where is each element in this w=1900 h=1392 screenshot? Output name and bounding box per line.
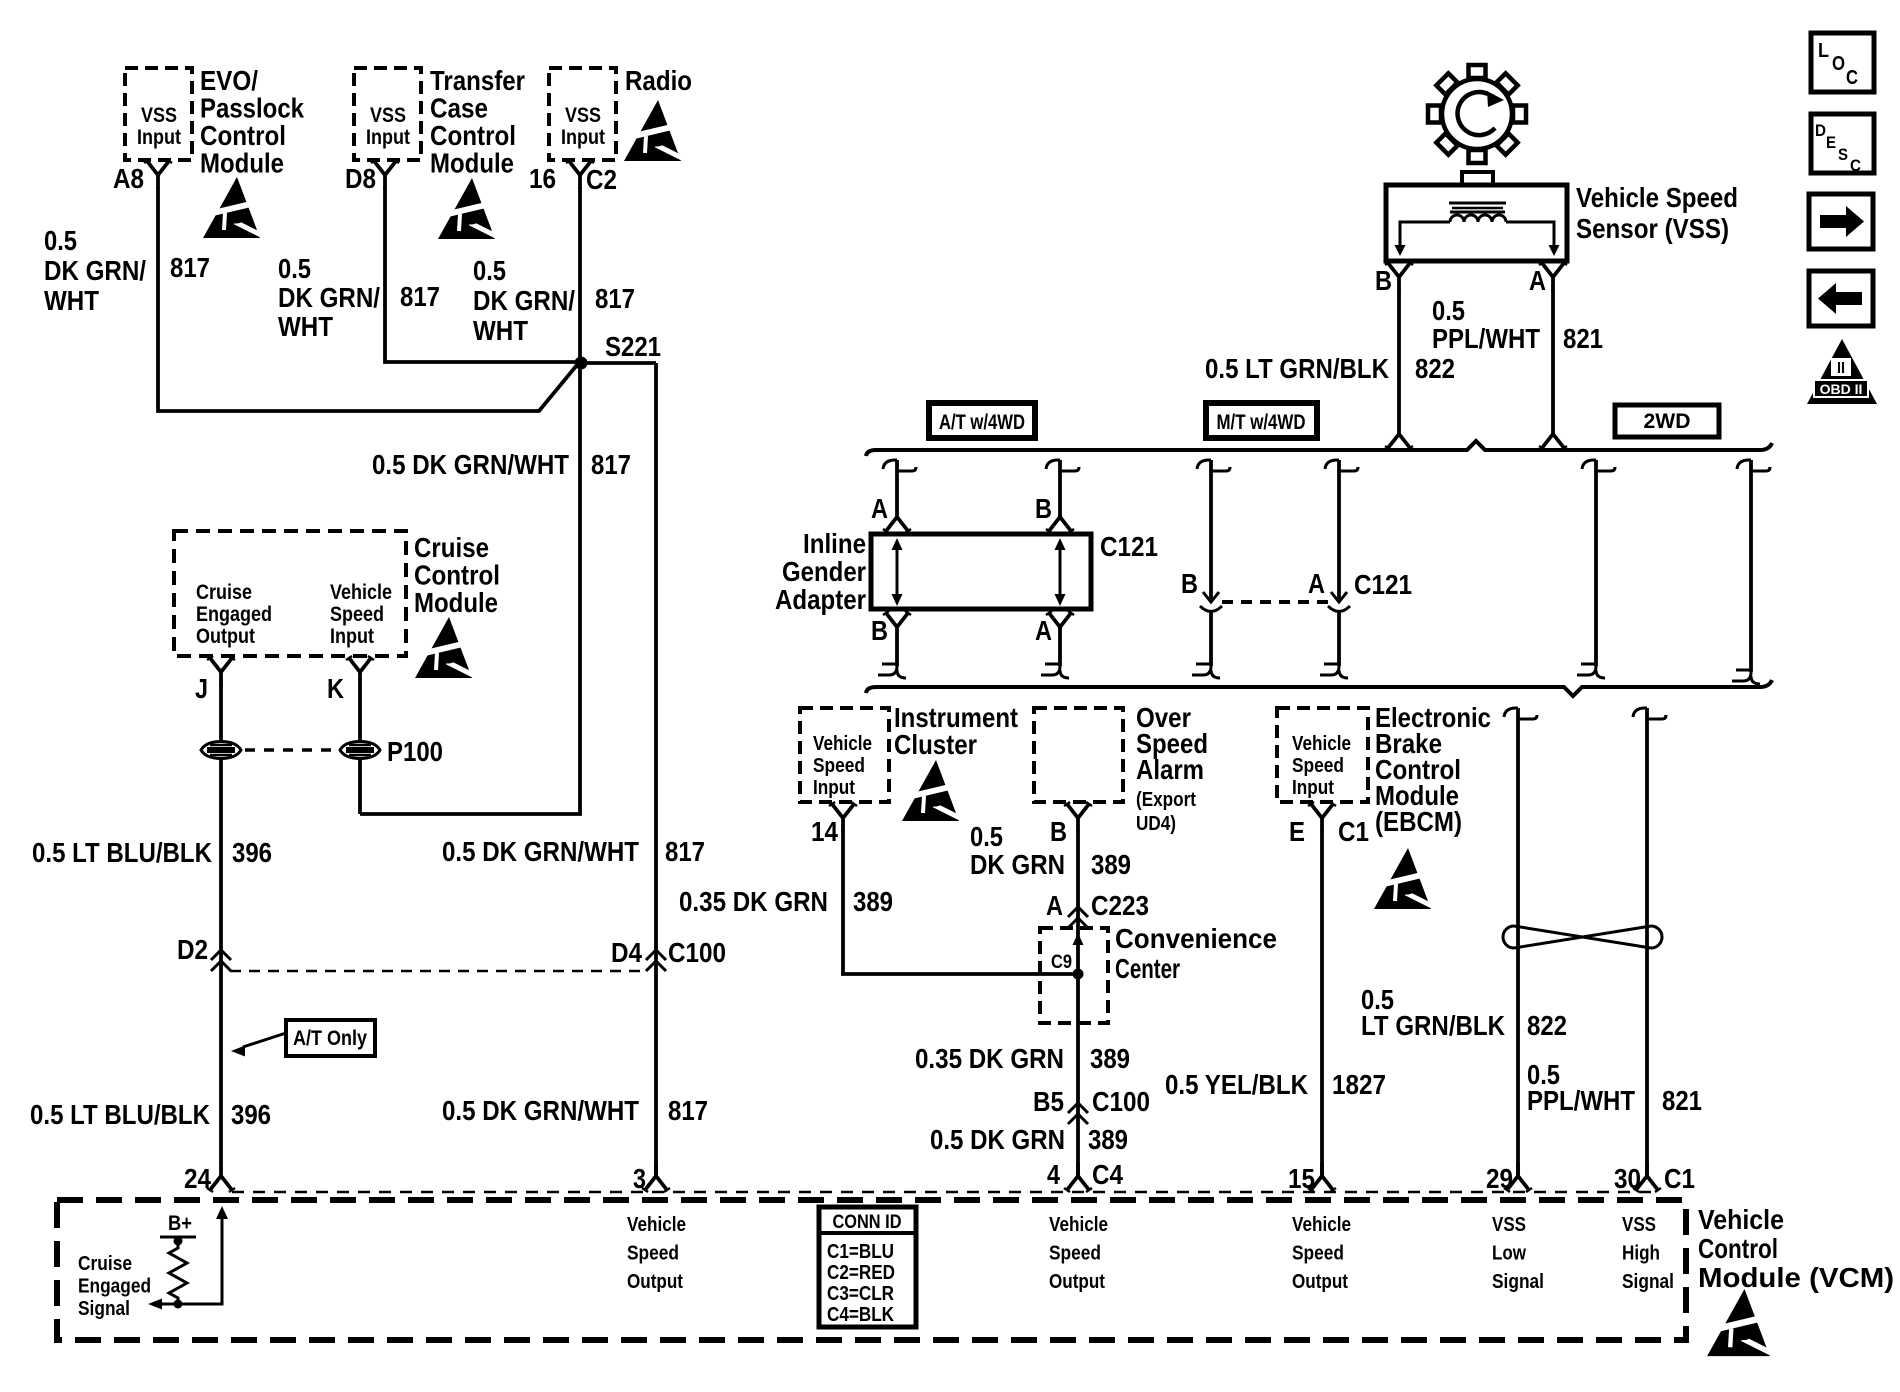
wire 817 from EVO pin A8 to splice S221 [158,187,577,411]
svg-text:OBD II: OBD II [1820,381,1863,397]
wire 389 from pin B down to VCM pin 4 [1076,830,1080,1176]
svg-text:821: 821 [1563,323,1603,354]
ESD-sensitive symbol (Radio) [624,100,686,161]
svg-text:Radio: Radio [625,65,692,96]
A/T stub wire A (right) from gender adapter to lower bracket [1049,613,1071,627]
svg-text:VSS: VSS [1492,1214,1526,1236]
svg-text:Center: Center [1115,953,1180,984]
module Cruise Control Module (dashed box) [174,531,406,656]
wire 821 VSS high signal from lower bracket to VCM pin 30 [1633,708,1647,717]
svg-text:0.5: 0.5 [473,255,506,286]
module Over Speed Alarm (dashed box) [1034,708,1123,802]
svg-text:14: 14 [811,816,838,847]
svg-text:Speed: Speed [330,603,384,626]
svg-text:Cruise: Cruise [414,532,489,563]
sidebar icon OBD II triangle [1807,339,1877,404]
svg-text:C100: C100 [668,937,726,968]
upper harness bracket [866,441,1772,456]
svg-text:S: S [1838,145,1848,164]
svg-text:L: L [1818,40,1829,62]
svg-text:A: A [1035,615,1052,646]
svg-text:396: 396 [232,837,272,868]
svg-text:VSS: VSS [370,104,406,127]
svg-text:VSS: VSS [141,104,177,127]
svg-text:WHT: WHT [278,311,333,342]
svg-text:Control: Control [1698,1233,1778,1264]
svg-text:Adapter: Adapter [775,584,866,615]
module EVO/Passlock Control Module (VSS Input box) [125,68,192,160]
svg-text:K: K [327,673,344,704]
VCM connector face (thin dashed line) [232,1191,1656,1194]
module Instrument Cluster (dashed box, Vehicle Speed Input) [800,708,889,802]
pass-through grommet P100 (K wire) [340,742,380,759]
svg-text:Signal: Signal [1622,1271,1674,1293]
svg-text:389: 389 [1091,849,1131,880]
svg-text:Control: Control [200,120,286,151]
VSS internal wires to terminals [1400,222,1450,246]
svg-text:C121: C121 [1100,531,1158,562]
svg-text:D2: D2 [177,934,208,965]
svg-text:Sensor (VSS): Sensor (VSS) [1576,213,1729,244]
svg-text:0.5 DK GRN: 0.5 DK GRN [930,1124,1065,1155]
variant label box 2WD [1615,405,1719,437]
svg-text:II: II [1837,360,1845,377]
svg-text:M/T w/4WD: M/T w/4WD [1217,411,1306,434]
svg-text:(EBCM): (EBCM) [1375,806,1462,837]
sidebar icon forward arrow [1809,194,1873,249]
svg-text:821: 821 [1662,1085,1702,1116]
svg-text:Cruise: Cruise [196,581,252,604]
svg-text:C2=RED: C2=RED [827,1262,895,1284]
svg-text:(Export: (Export [1136,789,1196,811]
dashed link between P100 grommets [245,748,336,752]
svg-text:J: J [195,673,208,704]
wire 817 from pin K down through P100 to S221 branch [358,684,362,814]
svg-text:Vehicle: Vehicle [627,1214,686,1236]
svg-text:0.5: 0.5 [44,225,77,256]
svg-text:C: C [1850,156,1861,175]
svg-text:B5: B5 [1033,1086,1064,1117]
wire 822 from VSS pin B to harness bracket [1397,289,1401,434]
svg-text:Vehicle: Vehicle [1292,1214,1351,1236]
svg-text:Vehicle: Vehicle [813,733,872,755]
wire 817 from S221 right and down to VCM pin 3 [581,363,656,1176]
svg-text:C2: C2 [586,164,617,195]
svg-text:Input: Input [561,126,605,149]
svg-text:817: 817 [591,449,631,480]
variant label box M/T w/4WD [1206,403,1317,438]
ESD-sensitive symbol (VCM) [1707,1289,1775,1356]
svg-text:Engaged: Engaged [78,1276,151,1298]
svg-text:Module: Module [414,587,498,618]
gender adapter internal pass-through (left) [896,546,899,598]
wire 822 VSS low signal from lower bracket to VCM pin 29 [1504,708,1518,717]
svg-text:C4=BLK: C4=BLK [827,1304,894,1326]
svg-text:389: 389 [1088,1124,1128,1155]
svg-text:0.5: 0.5 [278,253,311,284]
gender adapter internal pass-through (right) [1059,546,1062,598]
svg-text:D8: D8 [345,163,376,194]
svg-text:Passlock: Passlock [200,93,304,124]
svg-text:C3=CLR: C3=CLR [827,1283,894,1305]
svg-text:817: 817 [400,281,440,312]
ESD-sensitive symbol (EBCM) [1374,848,1436,909]
svg-text:B: B [1181,568,1198,599]
svg-text:C1: C1 [1664,1163,1695,1194]
svg-text:0.5 DK GRN/WHT: 0.5 DK GRN/WHT [442,836,639,867]
Vehicle Speed Sensor (VSS) body [1462,172,1493,185]
wire 1827 from EBCM pin E down to VCM pin 15 [1320,830,1324,1176]
VSS core laminations [1449,202,1506,205]
svg-text:Control: Control [430,120,516,151]
svg-text:Gender: Gender [782,556,866,587]
dashed connector line C121 (M/T) [1222,600,1328,604]
svg-text:Output: Output [196,625,255,648]
svg-text:S221: S221 [605,331,661,362]
svg-text:A8: A8 [113,163,144,194]
svg-text:Cluster: Cluster [894,729,977,760]
svg-text:0.5 DK GRN/WHT: 0.5 DK GRN/WHT [442,1095,639,1126]
svg-text:DK GRN/: DK GRN/ [473,285,575,316]
variant label box A/T w/4WD [929,403,1035,438]
dashed connector line C100 between D2 and D4 [230,970,648,973]
module Vehicle Control Module VCM (heavy dashed box) [57,1200,1686,1340]
svg-text:A: A [1529,265,1546,296]
svg-text:Vehicle: Vehicle [1049,1214,1108,1236]
svg-text:817: 817 [595,283,635,314]
twisted pair symbol on wires 822/821 [1503,926,1514,948]
svg-text:Vehicle: Vehicle [1698,1204,1784,1235]
svg-text:Case: Case [430,93,488,124]
svg-text:Module: Module [430,148,514,179]
svg-text:DK GRN/: DK GRN/ [278,282,380,313]
svg-text:High: High [1622,1243,1660,1265]
svg-text:Control: Control [414,560,500,591]
svg-text:Low: Low [1492,1243,1526,1265]
svg-text:Input: Input [1292,777,1334,799]
svg-text:A: A [1046,890,1063,921]
reluctor gear symbol of Vehicle Speed Sensor [1428,65,1526,163]
svg-text:A: A [1308,568,1325,599]
svg-text:Input: Input [330,625,374,648]
svg-text:Input: Input [813,777,855,799]
svg-text:C1: C1 [1338,816,1369,847]
VSS pickup coil [1450,215,1506,222]
svg-text:A/T Only: A/T Only [293,1027,367,1050]
svg-text:B: B [1050,816,1067,847]
svg-text:C: C [1846,67,1858,89]
svg-text:Output: Output [1049,1271,1105,1293]
svg-text:VSS: VSS [1622,1214,1656,1236]
svg-text:822: 822 [1527,1010,1567,1041]
svg-text:B: B [1375,265,1392,296]
svg-text:Vehicle Speed: Vehicle Speed [1576,182,1738,213]
svg-text:WHT: WHT [44,285,99,316]
callout box A/T Only with arrow to wire 396 [286,1020,375,1056]
svg-text:O: O [1832,53,1845,75]
svg-text:Signal: Signal [78,1298,130,1320]
sidebar icon LOC [1811,33,1874,92]
svg-text:389: 389 [1090,1043,1130,1074]
svg-text:CONN ID: CONN ID [833,1212,902,1233]
svg-text:817: 817 [170,252,210,283]
2WD stub wire (left) [1582,460,1596,469]
svg-text:0.35 DK GRN: 0.35 DK GRN [915,1043,1064,1074]
svg-text:389: 389 [853,886,893,917]
svg-text:C9: C9 [1051,952,1072,973]
svg-text:Cruise: Cruise [78,1253,132,1275]
svg-text:Transfer: Transfer [430,65,525,96]
svg-text:Speed: Speed [1049,1243,1101,1265]
svg-text:Speed: Speed [813,755,865,777]
svg-text:Convenience: Convenience [1115,923,1277,954]
svg-text:UD4): UD4) [1136,813,1176,835]
A/T stub wire A (left) from bracket to gender adapter [883,460,897,469]
svg-text:DK GRN/: DK GRN/ [44,255,146,286]
svg-text:0.5 YEL/BLK: 0.5 YEL/BLK [1165,1069,1308,1100]
svg-text:Input: Input [366,126,410,149]
splice S221 [575,357,588,370]
module Convenience Center (dashed box) with C9 junction [1040,928,1108,1023]
svg-text:B: B [1035,493,1052,524]
svg-text:0.5 DK GRN/WHT: 0.5 DK GRN/WHT [372,449,569,480]
svg-text:A: A [871,493,888,524]
svg-text:Output: Output [1292,1271,1348,1293]
module Transfer Case Control Module (VSS Input box) [354,68,421,160]
A/T stub wire B (left) from gender adapter to lower bracket [886,613,908,627]
ESD-sensitive symbol (EVO module) [203,177,265,238]
svg-text:Module (VCM): Module (VCM) [1698,1262,1894,1293]
svg-text:Engaged: Engaged [196,603,272,626]
svg-text:E: E [1826,133,1836,152]
svg-text:PPL/WHT: PPL/WHT [1432,323,1540,354]
ESD-sensitive symbol (Cruise Control module) [415,617,477,678]
pass-through grommet P100 (J wire) [201,742,241,759]
M/T stub wire B (left) with connector C121 [1197,460,1211,469]
svg-text:817: 817 [668,1095,708,1126]
svg-text:C1=BLU: C1=BLU [827,1241,894,1263]
svg-text:0.5: 0.5 [970,821,1003,852]
wire 817 from Radio pin 16 down through splice S221 [360,187,580,814]
svg-text:C121: C121 [1354,569,1412,600]
ESD-sensitive symbol (Transfer Case module) [438,178,500,239]
svg-text:Vehicle: Vehicle [1292,733,1351,755]
svg-text:E: E [1289,816,1305,847]
svg-text:WHT: WHT [473,315,528,346]
svg-text:4: 4 [1047,1159,1060,1190]
svg-text:B+: B+ [168,1212,192,1235]
svg-text:B: B [871,615,888,646]
svg-text:0.5 LT BLU/BLK: 0.5 LT BLU/BLK [30,1099,210,1130]
svg-text:Output: Output [627,1271,683,1293]
svg-text:Speed: Speed [1292,755,1344,777]
svg-text:PPL/WHT: PPL/WHT [1527,1085,1635,1116]
wire 821 from VSS pin A to harness bracket [1551,289,1555,434]
sidebar icon DESC [1811,114,1874,173]
wire 817 from Transfer Case pin D8 to splice S221 [385,187,575,362]
svg-text:Alarm: Alarm [1136,754,1204,785]
svg-text:LT GRN/BLK: LT GRN/BLK [1361,1010,1505,1041]
svg-text:Inline: Inline [803,528,866,559]
svg-text:C223: C223 [1091,890,1149,921]
svg-text:VSS: VSS [565,104,601,127]
A/T stub wire B (right) from bracket to gender adapter [1046,460,1060,469]
svg-text:Signal: Signal [1492,1271,1544,1293]
svg-text:0.5 LT GRN/BLK: 0.5 LT GRN/BLK [1205,353,1389,384]
module Radio (VSS Input box) [549,68,616,160]
ESD-sensitive symbol (Instrument Cluster) [902,760,964,821]
svg-text:EVO/: EVO/ [200,65,258,96]
M/T stub wire A (right) with connector C121 [1325,460,1339,469]
svg-text:817: 817 [665,836,705,867]
svg-text:0.5: 0.5 [1432,295,1465,326]
svg-text:C4: C4 [1092,1159,1123,1190]
svg-text:Module: Module [200,148,284,179]
svg-text:822: 822 [1415,353,1455,384]
svg-text:396: 396 [231,1099,271,1130]
svg-text:1827: 1827 [1332,1069,1386,1100]
Inline Gender Adapter box C121 [871,534,1091,609]
lower harness bracket [866,680,1772,696]
svg-text:0.35 DK GRN: 0.35 DK GRN [679,886,828,917]
wire 396 from pin J down to VCM pin 24 [219,684,223,1163]
module Electronic Brake Control Module EBCM (dashed box, Vehicle Speed Input) [1277,708,1368,802]
svg-text:Speed: Speed [627,1243,679,1265]
svg-text:C100: C100 [1092,1086,1150,1117]
2WD stub wire (right) [1737,460,1751,469]
svg-text:Vehicle: Vehicle [330,581,392,604]
svg-text:D4: D4 [611,937,642,968]
svg-text:P100: P100 [387,736,443,767]
CONN ID legend table [819,1207,916,1327]
svg-text:Input: Input [137,126,181,149]
svg-text:2WD: 2WD [1644,410,1691,433]
svg-text:DK GRN: DK GRN [970,849,1065,880]
svg-text:0.5 LT BLU/BLK: 0.5 LT BLU/BLK [32,837,212,868]
svg-text:D: D [1815,121,1826,140]
wire 389 from pin 14 to convenience center junction [843,830,1074,974]
svg-text:16: 16 [529,163,556,194]
sidebar icon back arrow [1809,271,1873,326]
svg-text:A/T w/4WD: A/T w/4WD [939,411,1025,434]
svg-text:Speed: Speed [1292,1243,1344,1265]
